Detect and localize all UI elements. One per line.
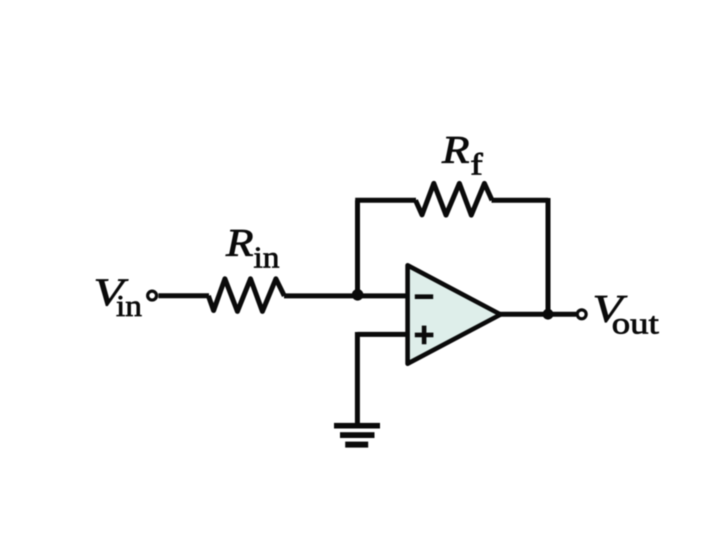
label Vin <box>94 271 143 323</box>
svg-text:R: R <box>441 129 470 172</box>
junction node at output <box>543 309 554 320</box>
junction node at inverting input <box>352 289 364 301</box>
wire Vin to Rin <box>158 293 209 298</box>
label Rf <box>441 129 484 182</box>
resistor R_in <box>208 279 284 312</box>
wire feedback top left <box>355 198 416 203</box>
wire op-amp output <box>500 312 576 317</box>
wire to ground <box>355 332 360 424</box>
op-amp plus sign <box>415 326 434 345</box>
terminal Vin <box>148 291 157 300</box>
wire feedback top right <box>492 198 549 203</box>
svg-text:out: out <box>612 306 659 341</box>
svg-text:R: R <box>225 222 254 265</box>
terminal Vout <box>577 310 586 319</box>
ground <box>334 423 380 448</box>
label Vout <box>593 288 660 341</box>
op-amp U1 <box>408 265 501 363</box>
svg-text:in: in <box>254 239 281 274</box>
wire feedback vertical right <box>546 198 551 314</box>
wire noninverting input <box>357 332 408 337</box>
resistor R_f <box>416 183 493 215</box>
label Rin <box>225 222 280 275</box>
wire Rin to inverting input <box>284 293 408 298</box>
svg-text:in: in <box>116 288 143 323</box>
op-amp minus sign <box>415 294 433 299</box>
svg-text:f: f <box>470 146 483 181</box>
wire feedback vertical left <box>355 200 360 297</box>
